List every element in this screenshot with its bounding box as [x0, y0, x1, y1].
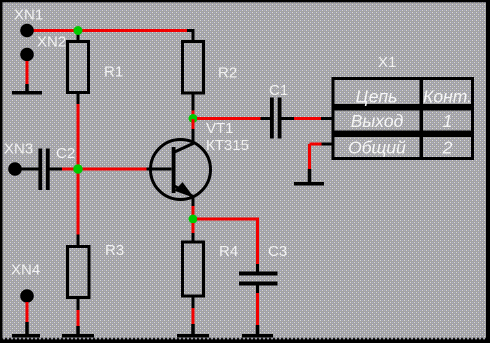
- wire R3 top lead: [77, 235, 80, 247]
- connector XN2: [20, 48, 34, 62]
- wire top rail XN1 to R2: [27, 29, 189, 32]
- svg-text:R2: R2: [218, 65, 237, 82]
- node base junction: [73, 164, 83, 174]
- wire C1 left lead: [261, 117, 271, 120]
- svg-text:КТ315: КТ315: [206, 137, 249, 154]
- svg-text:C1: C1: [269, 82, 288, 99]
- wire R2 bottom lead: [192, 93, 195, 111]
- svg-text:2: 2: [442, 138, 453, 158]
- wire R3 to ground: [77, 310, 80, 327]
- wire C1 to table: [294, 117, 322, 120]
- connector XN1: [20, 24, 34, 38]
- wire emitter node to R4: [192, 223, 195, 234]
- svg-text:XN1: XN1: [14, 7, 43, 24]
- wire table pin1 lead: [321, 117, 334, 120]
- wire R4 top lead: [192, 233, 195, 242]
- svg-text:Цепь: Цепь: [356, 87, 398, 107]
- node top junction: [74, 26, 83, 35]
- wire pin2 to ground: [310, 144, 322, 170]
- wire emitter node to C3: [197, 219, 258, 265]
- transistor VT1: [151, 140, 211, 200]
- node collector junction: [189, 114, 198, 123]
- wire R1 bottom lead: [77, 93, 80, 105]
- wire C2 right lead: [50, 168, 63, 171]
- svg-text:XN2: XN2: [37, 34, 66, 51]
- wire table pin2 lead: [321, 143, 334, 146]
- connector table X1: [333, 79, 473, 159]
- resistor R1: [68, 42, 89, 93]
- svg-text:XN3: XN3: [4, 141, 33, 158]
- wire C3 bottom lead: [256, 286, 259, 294]
- ground under R3: [62, 326, 94, 336]
- wire R4 to ground: [192, 308, 195, 325]
- wire R4 bottom lead: [192, 296, 195, 309]
- frame top: [0, 0, 490, 2]
- connector XN3: [8, 162, 22, 176]
- svg-text:Выход: Выход: [351, 111, 404, 131]
- ground under table: [294, 169, 324, 184]
- resistor R3: [68, 247, 90, 298]
- wire R3 bottom lead: [77, 298, 80, 311]
- capacitor C2: [40, 149, 48, 191]
- svg-text:XN4: XN4: [11, 262, 40, 279]
- svg-text:C3: C3: [268, 243, 287, 260]
- wire collector red stub: [192, 119, 195, 129]
- wire C3 to ground: [256, 293, 259, 326]
- frame bottom sawtooth: [0, 337, 490, 343]
- connector XN4: [20, 289, 34, 303]
- svg-text:R1: R1: [104, 64, 123, 81]
- wire XN2 down: [26, 61, 29, 86]
- svg-text:Конт.: Конт.: [423, 87, 472, 107]
- node emitter junction: [189, 215, 198, 224]
- svg-text:R3: R3: [105, 242, 124, 259]
- wire XN3 to C2: [20, 168, 39, 171]
- ground under R4: [177, 324, 209, 336]
- capacitor C3: [239, 274, 278, 284]
- resistor R4: [183, 242, 204, 296]
- svg-text:R4: R4: [219, 243, 238, 260]
- capacitor C1: [272, 98, 280, 139]
- ground under XN4: [12, 322, 40, 336]
- wire C1 right lead: [282, 117, 295, 120]
- wire left vertical rail: [77, 104, 80, 235]
- ground under C3: [242, 325, 273, 336]
- svg-text:VT1: VT1: [206, 120, 234, 137]
- wire base lead: [147, 168, 172, 171]
- resistor R2: [183, 42, 204, 94]
- frame right: [486, 0, 490, 343]
- wire corner into R2 top: [187, 31, 193, 42]
- wire C2 to base: [62, 168, 147, 171]
- ground under XN2: [12, 84, 42, 93]
- wire R2 to collector node: [192, 111, 195, 120]
- wire XN4 down: [26, 302, 29, 323]
- svg-text:C2: C2: [56, 145, 75, 162]
- svg-text:X1: X1: [378, 54, 396, 71]
- svg-text:Общий: Общий: [348, 138, 406, 158]
- svg-text:1: 1: [443, 111, 453, 131]
- wire R1 top lead: [77, 31, 80, 43]
- wire C3 top lead: [256, 264, 259, 272]
- wire emitter red stub: [192, 206, 195, 219]
- wire collector node to C1: [197, 117, 261, 120]
- frame left: [0, 0, 3, 343]
